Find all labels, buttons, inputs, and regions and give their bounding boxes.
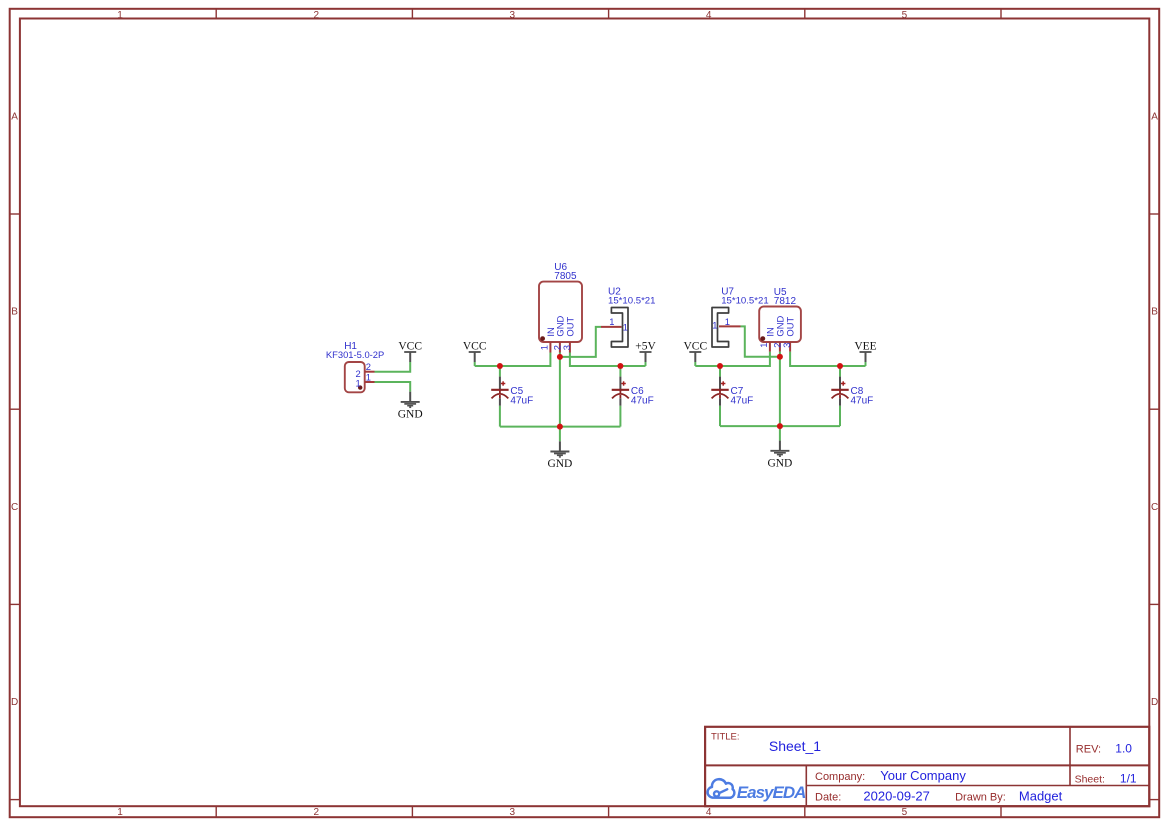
svg-text:1: 1 — [117, 10, 123, 21]
svg-text:1: 1 — [355, 378, 360, 389]
svg-text:4: 4 — [706, 807, 712, 818]
svg-text:B: B — [1151, 307, 1158, 318]
svg-text:1: 1 — [725, 316, 730, 327]
svg-text:VCC: VCC — [683, 340, 707, 352]
svg-text:EasyEDA: EasyEDA — [737, 783, 806, 802]
svg-text:1.0: 1.0 — [1115, 741, 1132, 755]
svg-text:VCC: VCC — [463, 340, 487, 352]
svg-text:Drawn By:: Drawn By: — [955, 792, 1006, 804]
svg-text:47uF: 47uF — [731, 395, 754, 406]
svg-text:2: 2 — [314, 807, 320, 818]
svg-text:1: 1 — [623, 321, 628, 332]
svg-text:VCC: VCC — [398, 340, 422, 352]
svg-text:7805: 7805 — [554, 271, 577, 282]
svg-text:C: C — [1151, 502, 1158, 513]
svg-text:D: D — [11, 697, 18, 708]
svg-text:TITLE:: TITLE: — [711, 731, 740, 742]
svg-text:D: D — [1151, 697, 1158, 708]
svg-text:+5V: +5V — [635, 340, 656, 352]
svg-text:15*10.5*21: 15*10.5*21 — [721, 295, 768, 306]
svg-text:1: 1 — [712, 320, 717, 331]
svg-text:1: 1 — [117, 807, 123, 818]
svg-text:15*10.5*21: 15*10.5*21 — [608, 295, 655, 306]
svg-text:3: 3 — [561, 345, 572, 350]
svg-text:47uF: 47uF — [851, 395, 874, 406]
svg-text:3: 3 — [781, 343, 792, 348]
svg-text:GND: GND — [767, 457, 792, 469]
svg-text:5: 5 — [902, 10, 908, 21]
svg-text:VEE: VEE — [854, 340, 876, 352]
svg-text:3: 3 — [510, 807, 516, 818]
svg-text:1: 1 — [758, 343, 769, 348]
svg-text:5: 5 — [902, 807, 908, 818]
svg-text:3: 3 — [510, 10, 516, 21]
svg-text:1: 1 — [609, 316, 614, 327]
svg-text:OUT: OUT — [564, 317, 575, 337]
svg-text:4: 4 — [706, 10, 712, 21]
svg-text:Madget: Madget — [1019, 789, 1063, 804]
svg-text:2: 2 — [314, 10, 320, 21]
svg-text:Date:: Date: — [815, 792, 841, 804]
svg-text:1: 1 — [539, 345, 550, 350]
svg-text:7812: 7812 — [774, 296, 797, 307]
svg-text:Your Company: Your Company — [880, 768, 966, 783]
svg-text:1/1: 1/1 — [1120, 771, 1137, 785]
svg-text:GND: GND — [398, 409, 423, 421]
svg-text:C: C — [11, 502, 18, 513]
svg-text:Company:: Company: — [815, 771, 865, 783]
svg-text:Sheet:: Sheet: — [1075, 773, 1105, 785]
svg-text:OUT: OUT — [785, 317, 796, 337]
svg-text:REV:: REV: — [1076, 743, 1101, 755]
svg-text:B: B — [11, 307, 18, 318]
svg-text:A: A — [11, 111, 18, 122]
svg-text:2020-09-27: 2020-09-27 — [863, 789, 930, 804]
svg-text:47uF: 47uF — [631, 395, 654, 406]
svg-text:KF301-5.0-2P: KF301-5.0-2P — [326, 349, 384, 360]
svg-text:1: 1 — [366, 371, 371, 382]
svg-text:47uF: 47uF — [510, 395, 533, 406]
svg-text:Sheet_1: Sheet_1 — [769, 738, 821, 754]
svg-text:A: A — [1151, 111, 1158, 122]
svg-text:GND: GND — [547, 458, 572, 470]
